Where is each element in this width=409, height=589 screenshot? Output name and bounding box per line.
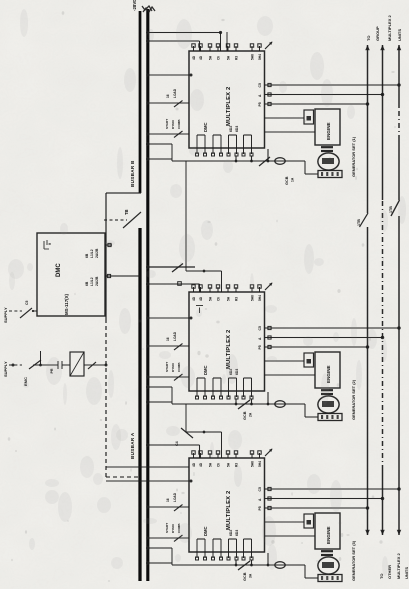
contact staple 1 U1 xyxy=(197,134,205,136)
wire from EMC box down to interconnection line xyxy=(84,364,106,366)
switch C4 on link wire to U3 xyxy=(181,428,193,438)
svg-text:MULTIPLEX 2: MULTIPLEX 2 xyxy=(396,553,401,579)
contact staple 3 U3 xyxy=(229,538,237,540)
pin pad on U2 drop A xyxy=(178,282,182,286)
svg-text:LOAD: LOAD xyxy=(173,492,177,502)
svg-text:MULTIPLEX 2: MULTIPLEX 2 xyxy=(226,87,232,126)
svg-text:3A: 3A xyxy=(249,573,253,578)
svg-text:2A/2B: 2A/2B xyxy=(95,276,99,286)
wire group line 1 xyxy=(367,227,369,535)
svg-text:GCB: GCB xyxy=(243,572,247,581)
svg-text:START: START xyxy=(165,523,169,533)
arrow right end group line 3 xyxy=(397,45,402,50)
svg-text:5H: 5H xyxy=(209,462,213,467)
wire DMC interconnection line y=106 dashed part xyxy=(105,321,107,477)
svg-text:4D: 4D xyxy=(192,55,196,60)
arrow right end group line 1 xyxy=(365,45,370,50)
pin 4D right edge U2 xyxy=(193,287,195,292)
pin 5H right edge U2 xyxy=(209,287,211,292)
pin DMC bottom stub 2 wire to busbar xyxy=(105,275,140,277)
wire bus drop A U3 xyxy=(148,444,200,446)
svg-text:TB: TB xyxy=(124,209,129,215)
svg-text:DYNO: DYNO xyxy=(171,523,175,533)
pin C5 bottom edge U2 wire to group line xyxy=(265,327,400,329)
component mark inside U2 near top pin xyxy=(199,308,201,314)
arrow right end group line 2 xyxy=(380,45,385,50)
svg-text:2A: 2A xyxy=(249,412,253,417)
wire feed START/DYNO/COMB U3 xyxy=(148,537,189,539)
battery box U2 xyxy=(318,414,342,421)
svg-text:GCB: GCB xyxy=(285,176,289,185)
wire block to heater U2 xyxy=(265,360,305,362)
wire staple pad links U1 xyxy=(235,156,237,161)
wire dashed stub near tie switch xyxy=(104,219,127,221)
wire GCB drops from busbar U2 xyxy=(148,401,172,403)
switch GCB blade U2 xyxy=(238,400,250,409)
svg-text:5H: 5H xyxy=(227,55,231,60)
pin 4D right edge U3 xyxy=(200,453,202,458)
svg-text:C5: C5 xyxy=(258,83,262,87)
generator G U3 xyxy=(318,557,339,574)
svg-text:5H4: 5H4 xyxy=(258,461,262,467)
wire bus drop B U1 xyxy=(148,32,221,34)
arrow corner marker U2 xyxy=(265,283,272,290)
svg-text:DYNO: DYNO xyxy=(171,119,175,129)
switch on EMC supply xyxy=(12,364,15,367)
wire block to engine U3 xyxy=(265,535,316,537)
wire block to heater U1 xyxy=(265,117,305,119)
wire bus drop A U2 xyxy=(148,283,200,285)
svg-text:DMC: DMC xyxy=(203,365,208,375)
wire feed from DMC line U3 (crosses busbar) xyxy=(106,480,189,482)
svg-text:COMB: COMB xyxy=(177,362,181,372)
svg-text:5H: 5H xyxy=(209,55,213,60)
battery box U3 xyxy=(318,575,342,582)
switch on DMC supply xyxy=(20,308,32,318)
wire busbar upper line, right section (BUSBAR B) xyxy=(139,11,142,193)
svg-text:ENGINE: ENGINE xyxy=(326,122,331,140)
svg-text:SUPPLY: SUPPLY xyxy=(3,361,8,377)
wire GCB drops from busbar U1 xyxy=(148,158,172,160)
pin P5 bottom edge U1 wire to group line xyxy=(265,103,368,105)
DMC controller box MS-117 xyxy=(37,233,105,316)
switch blade on auxiliary drop U2 xyxy=(172,264,183,273)
pin A bottom edge U3 wire to group line xyxy=(265,498,383,500)
svg-text:GCB: GCB xyxy=(243,411,247,420)
svg-text:UNITS: UNITS xyxy=(397,29,402,41)
pin 5H right edge U1 xyxy=(227,46,229,51)
svg-text:MS-117(X): MS-117(X) xyxy=(64,293,69,315)
wire block to heater U3 xyxy=(265,521,305,523)
svg-text:2A/2B: 2A/2B xyxy=(95,248,99,258)
wire staple pad links U2 xyxy=(235,399,237,404)
svg-text:4D: 4D xyxy=(199,55,203,60)
svg-text:LOAD: LOAD xyxy=(173,88,177,98)
heater box U3 xyxy=(304,514,314,528)
svg-text:GENERATOR SET (3): GENERATOR SET (3) xyxy=(351,540,356,581)
pin C5 bottom edge U3 wire to group line xyxy=(265,488,400,490)
svg-text:MULTIPLEX 2: MULTIPLEX 2 xyxy=(226,491,232,530)
svg-text:GENERATOR SET (1): GENERATOR SET (1) xyxy=(351,136,356,177)
pin 5H right edge U3 xyxy=(227,453,229,458)
wire feed START/DYNO/COMB U2 xyxy=(148,376,189,378)
svg-text:DYNO: DYNO xyxy=(171,362,175,372)
pin R3 right edge U2 xyxy=(235,287,237,292)
svg-text:4D: 4D xyxy=(199,296,203,301)
engine block U1 xyxy=(315,109,340,145)
wire GCB drops from busbar U3 xyxy=(148,562,172,564)
svg-text:6D2: 6D2 xyxy=(229,126,233,132)
contact staple 4 U3 xyxy=(244,538,252,540)
wire feed START/DYNO/COMB U1 xyxy=(148,133,189,135)
pin 5H right edge U1 xyxy=(209,46,211,51)
svg-text:BUSBAR B: BUSBAR B xyxy=(130,160,135,187)
svg-text:P5: P5 xyxy=(258,345,262,349)
pin DMC bottom stub 1 xyxy=(105,244,112,246)
wire feed 16 LOAD U2 xyxy=(148,345,189,347)
pin 4D right edge U1 xyxy=(193,46,195,51)
pin Ch right edge U3 xyxy=(217,453,219,458)
pin 4D right edge U3 xyxy=(193,453,195,458)
wire link from U1 generator wire to U2 xyxy=(185,161,187,271)
svg-text:R3: R3 xyxy=(235,56,239,60)
svg-text:6B: 6B xyxy=(85,281,89,286)
svg-text:5H4: 5H4 xyxy=(258,54,262,60)
wire group line 3 xyxy=(398,216,400,535)
shaft coupling U2 xyxy=(321,393,333,395)
svg-text:GENERATOR SET (2): GENERATOR SET (2) xyxy=(351,379,356,420)
contact staple 3 U2 xyxy=(229,377,237,379)
wire second stub U1 xyxy=(226,32,228,51)
battery box U1 xyxy=(318,171,342,178)
svg-text:Ch: Ch xyxy=(217,297,221,301)
contact staple 4 U2 xyxy=(244,377,252,379)
svg-text:9: 9 xyxy=(48,243,52,245)
svg-text:ENGINE: ENGINE xyxy=(326,526,331,544)
wire auxiliary drop right of U2 xyxy=(148,266,195,268)
wire generator feeder U3 xyxy=(172,564,305,566)
pin R3 right edge U1 xyxy=(235,46,237,51)
wire DMC interconnection line y=106 solid part xyxy=(105,193,107,321)
current transformer U2 xyxy=(275,401,285,408)
svg-text:C5: C5 xyxy=(25,301,29,305)
engine block U3 xyxy=(315,513,340,549)
pin P5 bottom edge U3 wire to group line xyxy=(265,507,368,509)
wire block to engine U1 xyxy=(265,131,316,133)
svg-text:6B: 6B xyxy=(85,253,89,258)
svg-text:DMC: DMC xyxy=(56,263,62,277)
arrow corner marker U3 xyxy=(265,449,272,456)
switch GCB blade U1 xyxy=(259,157,270,166)
switch TB bus tie blade on upper busbar xyxy=(123,212,141,228)
wire feed with node dot U1 xyxy=(148,74,189,76)
pin Ch right edge U2 xyxy=(217,287,219,292)
engine block U2 xyxy=(315,352,340,388)
svg-text:1TB: 1TB xyxy=(357,219,361,226)
svg-text:1TB: 1TB xyxy=(389,206,393,213)
wire link from U2 generator wire to U3 xyxy=(185,404,187,432)
svg-text:16: 16 xyxy=(166,337,170,341)
pin 4D right edge U2 xyxy=(200,287,202,292)
wire feed 16 LOAD U3 xyxy=(148,506,189,508)
wire generator feeder U1 xyxy=(172,160,305,162)
wire staple pad links U3 xyxy=(235,560,237,565)
svg-text:GROUP: GROUP xyxy=(375,26,380,41)
svg-text:6D3: 6D3 xyxy=(235,126,239,132)
svg-text:4D: 4D xyxy=(199,462,203,467)
wire feed with node dot U2 xyxy=(148,317,189,319)
contact staple 2 U1 xyxy=(213,134,221,136)
wire group line 2 (dash-dot) xyxy=(382,470,384,535)
current transformer U1 xyxy=(275,158,285,165)
svg-text:Ch: Ch xyxy=(217,56,221,60)
node junction on EMC supply xyxy=(39,364,42,367)
contact staple 2 U2 xyxy=(213,377,221,379)
arrow left end group line 2 xyxy=(380,530,385,535)
pin 5H6 right edge U2 xyxy=(251,287,253,292)
heater box U2 xyxy=(304,353,314,367)
svg-text:C5: C5 xyxy=(258,487,262,491)
svg-text:P5: P5 xyxy=(258,102,262,106)
shaft coupling U1 xyxy=(321,150,333,152)
relay box EMC with diagonal xyxy=(70,352,84,376)
wire generator feeder U2 xyxy=(172,403,305,405)
wire busbar upper line, left section (BUSBAR A) xyxy=(138,228,141,581)
svg-text:START: START xyxy=(165,119,169,129)
switch blade on group line 3 xyxy=(391,200,400,216)
pin A bottom edge U2 wire to group line xyxy=(265,337,383,339)
heater box U1 xyxy=(304,110,314,124)
svg-text:COMB: COMB xyxy=(177,119,181,129)
svg-text:5H4: 5H4 xyxy=(258,295,262,301)
pin C5 bottom edge U1 wire to group line xyxy=(265,84,400,86)
wire feeder to generator U2 xyxy=(304,404,306,417)
pin 5H right edge U3 xyxy=(209,453,211,458)
svg-text:START: START xyxy=(165,362,169,372)
svg-text:BUSBAR A: BUSBAR A xyxy=(130,432,135,459)
component small mark inside DMC box xyxy=(44,240,49,249)
svg-text:L1/L2: L1/L2 xyxy=(90,277,94,286)
pin P5 bottom edge U2 wire to group line xyxy=(265,346,368,348)
arrow left end group line 1 xyxy=(365,530,370,535)
wire second feed from DMC line U3 xyxy=(106,466,189,468)
svg-text:4D: 4D xyxy=(192,462,196,467)
svg-text:6D3: 6D3 xyxy=(235,530,239,536)
pin 5H6 right edge U3 xyxy=(251,453,253,458)
svg-text:-28VDC: -28VDC xyxy=(132,0,137,11)
arrow left end group line 3 xyxy=(397,530,402,535)
svg-text:4D: 4D xyxy=(192,296,196,301)
svg-text:5H6: 5H6 xyxy=(251,54,255,60)
multiplex block U3 xyxy=(189,458,265,552)
contact staple 2 U3 xyxy=(213,538,221,540)
pin R3 right edge U3 xyxy=(235,453,237,458)
contact staple 1 U3 xyxy=(197,538,205,540)
svg-text:Ch: Ch xyxy=(217,463,221,467)
pin 5H right edge U2 xyxy=(227,287,229,292)
contact staple 3 U1 xyxy=(229,134,237,136)
svg-text:R3: R3 xyxy=(235,297,239,301)
shaft coupling U3 xyxy=(321,554,333,556)
wire EMC supply dashed xyxy=(9,364,22,366)
generator G U2 xyxy=(318,396,339,413)
wire riser from upper busbar to DMC interconnection line xyxy=(106,192,141,194)
svg-text:16: 16 xyxy=(166,94,170,98)
pin 5H4 right edge U2 xyxy=(259,287,261,292)
svg-text:SUPPLY: SUPPLY xyxy=(3,307,8,323)
svg-text:C5: C5 xyxy=(258,326,262,330)
pin 5H4 right edge U3 xyxy=(259,453,261,458)
contact staple 1 U2 xyxy=(197,377,205,379)
arrow corner marker U1 xyxy=(265,42,272,49)
svg-text:P5: P5 xyxy=(258,506,262,510)
svg-text:TO: TO xyxy=(366,36,371,41)
pin 4D right edge U1 xyxy=(200,46,202,51)
svg-text:5H6: 5H6 xyxy=(251,461,255,467)
svg-text:1A: 1A xyxy=(291,177,295,182)
svg-text:MULTIPLEX 2: MULTIPLEX 2 xyxy=(387,15,392,41)
svg-text:LOAD: LOAD xyxy=(173,331,177,341)
wire feeder to generator U1 xyxy=(304,161,306,174)
pin Ch right edge U1 xyxy=(217,46,219,51)
svg-text:L1/L2: L1/L2 xyxy=(90,249,94,258)
wire busbar lower line (continuous) xyxy=(146,9,149,581)
node 28VDC supply squiggle at right end of busbar xyxy=(142,6,155,12)
switch GCB blade U3 xyxy=(238,561,250,570)
svg-text:5H: 5H xyxy=(227,296,231,301)
svg-text:TO: TO xyxy=(379,574,384,579)
contact staple 4 U1 xyxy=(244,134,252,136)
contact marks on EMC wire xyxy=(41,364,58,366)
wire dashed drop from interconnection line to busbar xyxy=(106,476,140,478)
wire feeder to generator U3 xyxy=(304,565,306,578)
pin 5H6 right edge U1 xyxy=(251,46,253,51)
svg-text:16: 16 xyxy=(166,498,170,502)
svg-text:DMC: DMC xyxy=(203,122,208,132)
pin A bottom edge U1 wire to group line xyxy=(265,94,383,96)
current transformer U3 xyxy=(275,562,285,569)
svg-text:UNITS: UNITS xyxy=(404,567,409,579)
svg-text:5H: 5H xyxy=(227,462,231,467)
svg-text:6D2: 6D2 xyxy=(229,530,233,536)
svg-text:DMC: DMC xyxy=(203,526,208,536)
svg-text:5H: 5H xyxy=(209,296,213,301)
wire feed 16 LOAD U1 xyxy=(148,102,189,104)
multiplex block U2 xyxy=(189,292,265,391)
wire block to engine U2 xyxy=(265,374,316,376)
wire bus drop A U1 xyxy=(148,40,200,42)
multiplex block U1 xyxy=(189,51,265,148)
svg-text:C4: C4 xyxy=(175,441,179,446)
generator G U1 xyxy=(318,153,339,170)
pin 5H4 right edge U1 xyxy=(259,46,261,51)
switch blade on group line 1 xyxy=(360,213,369,227)
